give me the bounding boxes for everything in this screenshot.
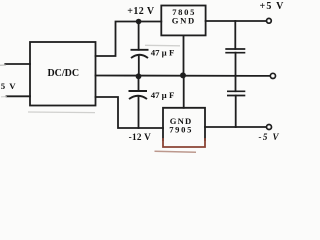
svg-text:-5 V: -5 V [259,132,280,142]
svg-text:+12 V: +12 V [127,6,155,17]
svg-text:47 µ F: 47 µ F [151,47,175,57]
svg-text:DC/DC: DC/DC [47,68,79,79]
svg-text:7905: 7905 [169,125,193,135]
svg-text:5 V: 5 V [1,81,17,91]
svg-text:47 µ F: 47 µ F [151,90,175,100]
svg-text:-12 V: -12 V [129,132,152,142]
svg-text:GND: GND [172,16,196,26]
svg-text:+5 V: +5 V [260,1,285,12]
